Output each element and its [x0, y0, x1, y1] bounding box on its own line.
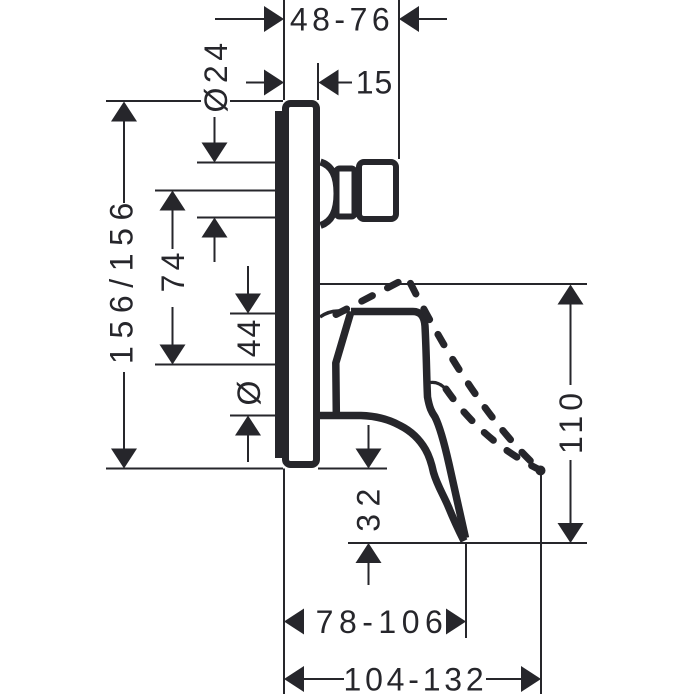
spout cylinder — [337, 169, 355, 217]
svg-text:Ø: Ø — [231, 381, 267, 406]
plate bottom leader line right — [318, 468, 387, 470]
handle cone top curve — [320, 311, 346, 317]
arrow 156 bottom — [111, 449, 137, 469]
wall extension line top (x=284) — [283, 0, 285, 100]
spout bottom leader line — [197, 217, 277, 219]
spout trumpet — [321, 162, 338, 226]
raised lever dashed bottom edge — [446, 389, 540, 470]
dim 15 right tail — [337, 82, 352, 84]
arrow O24 down — [202, 143, 228, 163]
bottom extension line handle tip (x=466) — [465, 543, 467, 638]
dim 74 line lower — [172, 307, 174, 346]
arrow 15 right — [319, 70, 339, 96]
svg-text:4: 4 — [155, 253, 191, 271]
spout tip extension line (x=399) — [398, 0, 400, 159]
cartridge axis leader line — [155, 364, 277, 366]
arrow O44 up — [235, 416, 261, 436]
svg-text:78-106: 78-106 — [316, 604, 449, 640]
handle tip leader line (y=543) — [348, 542, 587, 544]
svg-text:32: 32 — [351, 481, 387, 532]
dim 74 line upper — [172, 210, 174, 249]
arrow 74 top — [160, 191, 186, 211]
arrow 156 top — [111, 102, 137, 122]
arrow 110 top — [558, 285, 584, 305]
dim 48-76 right tail — [419, 18, 447, 20]
spout top leader line — [197, 162, 277, 164]
svg-text:110: 110 — [553, 388, 589, 454]
dim 104-132 right tail — [486, 678, 522, 680]
arrow 15 left — [264, 70, 284, 96]
bottom extension line raised tip (x=541) — [540, 475, 542, 694]
concealed body flange behind wall — [275, 111, 283, 458]
dim O44 upper shaft — [247, 266, 249, 295]
bottom extension line wall (x=284) — [283, 469, 285, 695]
handle sleeve left edge — [336, 312, 351, 413]
raised lever tip dot — [536, 466, 546, 476]
raised lever dashed top edge — [336, 278, 540, 471]
dim 156/156 line upper — [123, 117, 125, 203]
arrow O44 down — [235, 294, 261, 314]
dim 15 left tail — [246, 82, 265, 84]
svg-text:Ø24: Ø24 — [198, 39, 234, 113]
spout cap — [359, 162, 396, 219]
svg-text:104-132: 104-132 — [343, 662, 487, 698]
svg-text:7: 7 — [155, 275, 191, 293]
dim O24 lower shaft — [214, 237, 216, 263]
dim O24 upper shaft — [214, 117, 216, 144]
raised lever hint arc — [431, 382, 446, 389]
arrow 32 down — [356, 449, 382, 469]
dim 32 lower shaft — [368, 562, 370, 585]
arrow 48-76 left — [264, 6, 284, 32]
sleeve top leader line — [230, 313, 277, 315]
handle sleeve and lever outer edge — [351, 312, 466, 539]
arrow 74 bottom — [160, 345, 186, 365]
dim 110 line upper — [570, 303, 572, 385]
arrow 48-76 right — [399, 6, 419, 32]
svg-text:156/156: 156/156 — [104, 195, 140, 364]
handle raised top leader line (y=284) — [320, 283, 587, 285]
arrow 32 up — [356, 543, 382, 563]
escutcheon plate — [286, 104, 317, 465]
dim 48-76 left tail — [215, 18, 265, 20]
sleeve bottom leader line — [230, 415, 277, 417]
dim 104-132 left tail — [303, 678, 344, 680]
arrow O24 up — [202, 218, 228, 238]
arrow 78-106 right — [446, 609, 466, 635]
arrow 78-106 left — [284, 609, 304, 635]
dim 156/156 line lower — [123, 372, 125, 452]
dim 110 line lower — [570, 460, 572, 524]
arrow 104-132 left — [284, 666, 304, 692]
dim O44 lower shaft — [247, 435, 249, 463]
svg-text:44: 44 — [231, 318, 267, 358]
arrow 110 bottom — [558, 523, 584, 543]
handle underside curve — [318, 416, 464, 542]
arrow 104-132 right — [521, 666, 541, 692]
plate top leader line — [106, 100, 201, 102]
dim 32 upper shaft — [368, 425, 370, 450]
svg-text:48-76: 48-76 — [290, 2, 394, 38]
plate front extension line (x=318) — [317, 63, 319, 100]
plate bottom leader line left — [106, 468, 283, 470]
svg-text:15: 15 — [356, 65, 394, 101]
spout axis leader line — [155, 190, 277, 192]
